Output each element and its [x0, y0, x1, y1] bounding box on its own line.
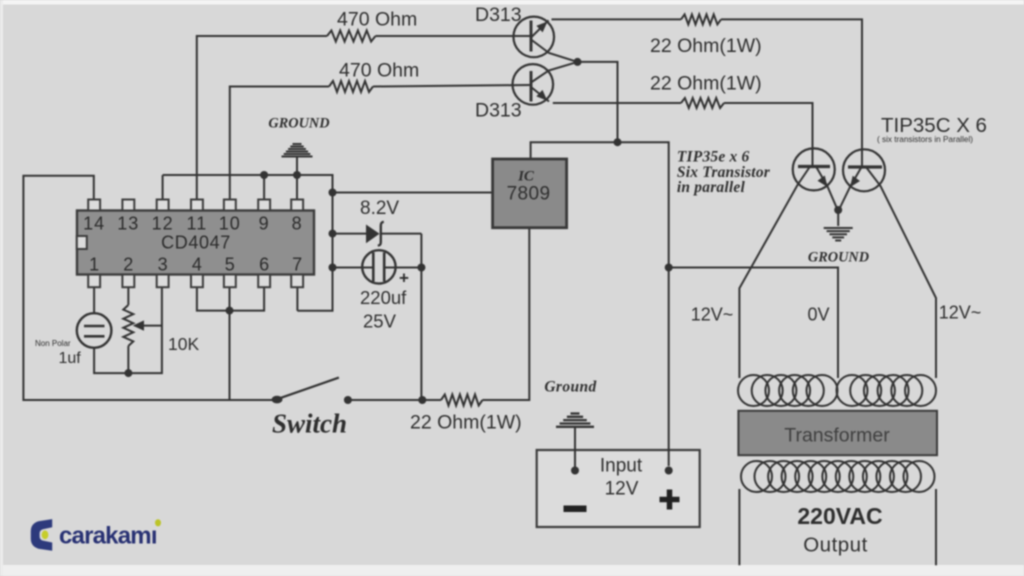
svg-text:22 Ohm(1W): 22 Ohm(1W): [650, 73, 762, 95]
svg-text:IC: IC: [517, 169, 535, 185]
svg-text:Non Polar: Non Polar: [35, 339, 71, 348]
svg-text:13: 13: [117, 214, 139, 234]
svg-text:5: 5: [225, 255, 235, 275]
svg-text:2: 2: [123, 255, 133, 275]
svg-text:6: 6: [259, 255, 269, 275]
svg-text:Output: Output: [803, 534, 868, 557]
svg-text:TIP35C X 6: TIP35C X 6: [881, 114, 987, 137]
svg-text:7809: 7809: [507, 184, 551, 205]
svg-text:220uf: 220uf: [360, 287, 407, 308]
svg-text:25V: 25V: [363, 311, 397, 332]
svg-text:Input: Input: [600, 456, 643, 477]
svg-text:10: 10: [219, 214, 241, 234]
svg-text:Switch: Switch: [272, 409, 347, 439]
svg-text:220VAC: 220VAC: [797, 503, 882, 529]
svg-text:D313: D313: [475, 100, 522, 122]
svg-text:9: 9: [259, 214, 270, 234]
svg-text:22 Ohm(1W): 22 Ohm(1W): [410, 412, 522, 434]
svg-text:+: +: [399, 269, 409, 288]
svg-text:1: 1: [89, 255, 99, 275]
svg-text:GROUND: GROUND: [808, 250, 869, 266]
svg-text:12V: 12V: [605, 479, 639, 500]
svg-text:12V~: 12V~: [939, 303, 982, 323]
svg-text:8: 8: [292, 214, 303, 234]
svg-text:470 Ohm: 470 Ohm: [337, 9, 417, 31]
svg-text:Ground: Ground: [544, 379, 596, 396]
svg-text:D313: D313: [475, 4, 522, 26]
svg-text:0V: 0V: [807, 305, 829, 325]
svg-text:3: 3: [158, 255, 168, 275]
svg-text:TIP35e x 6: TIP35e x 6: [677, 149, 750, 166]
svg-text:11: 11: [187, 214, 208, 234]
svg-text:( six transistors in Parallel): ( six transistors in Parallel): [877, 135, 973, 144]
svg-text:12V~: 12V~: [691, 305, 734, 325]
svg-text:10K: 10K: [168, 334, 199, 354]
svg-text:12: 12: [152, 214, 174, 234]
svg-text:14: 14: [83, 214, 105, 234]
svg-text:CD4047: CD4047: [161, 233, 231, 253]
svg-text:4: 4: [192, 255, 202, 275]
svg-text:470 Ohm: 470 Ohm: [339, 60, 419, 82]
svg-text:8.2V: 8.2V: [360, 198, 399, 219]
svg-text:22 Ohm(1W): 22 Ohm(1W): [650, 35, 762, 57]
svg-text:GROUND: GROUND: [268, 116, 329, 132]
svg-text:7: 7: [292, 255, 302, 275]
svg-text:carakami: carakami: [59, 523, 157, 550]
svg-text:1uf: 1uf: [59, 350, 82, 367]
svg-text:in parallel: in parallel: [677, 179, 746, 196]
svg-text:Transformer: Transformer: [784, 425, 890, 447]
